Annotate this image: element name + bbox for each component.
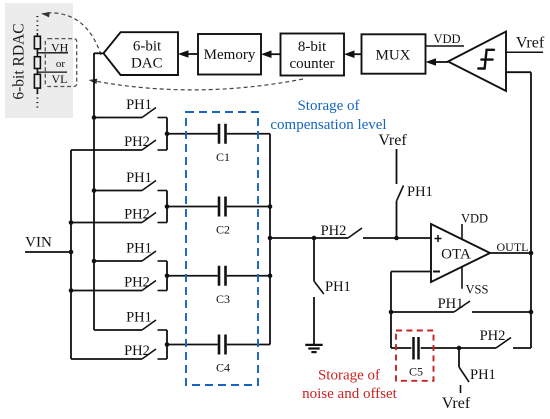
svg-text:VDD: VDD — [461, 212, 488, 226]
svg-text:Vref: Vref — [516, 35, 545, 52]
svg-text:OTA: OTA — [441, 247, 471, 263]
svg-text:VL: VL — [52, 72, 68, 86]
svg-text:C2: C2 — [216, 223, 230, 237]
svg-text:Storage of: Storage of — [297, 98, 359, 114]
svg-text:PH1: PH1 — [126, 310, 152, 326]
svg-text:PH2: PH2 — [124, 207, 150, 223]
svg-text:counter: counter — [290, 56, 335, 72]
svg-text:C1: C1 — [216, 150, 230, 164]
svg-text:Memory: Memory — [204, 47, 256, 63]
svg-text:VIN: VIN — [25, 235, 52, 251]
svg-text:PH1: PH1 — [325, 279, 351, 295]
svg-text:PH2: PH2 — [321, 223, 347, 239]
svg-text:or: or — [56, 58, 66, 70]
svg-text:Vref: Vref — [378, 132, 407, 149]
svg-text:MUX: MUX — [375, 48, 410, 64]
svg-text:VSS: VSS — [466, 283, 489, 297]
svg-text:DAC: DAC — [131, 56, 163, 72]
svg-text:PH1: PH1 — [126, 241, 152, 257]
svg-text:6-bit RDAC: 6-bit RDAC — [11, 23, 28, 99]
svg-text:PH2: PH2 — [124, 275, 150, 291]
svg-text:PH2: PH2 — [124, 343, 150, 359]
svg-text:compensation level: compensation level — [270, 117, 386, 133]
svg-text:PH1: PH1 — [126, 170, 152, 186]
svg-text:Vref: Vref — [442, 395, 471, 412]
svg-text:PH2: PH2 — [480, 328, 506, 344]
svg-text:PH1: PH1 — [126, 97, 152, 113]
svg-text:VDD: VDD — [433, 32, 460, 46]
svg-text:Storage of: Storage of — [318, 368, 380, 384]
svg-text:6-bit: 6-bit — [133, 39, 162, 55]
svg-text:C5: C5 — [409, 365, 423, 379]
svg-text:C4: C4 — [216, 361, 230, 375]
svg-text:PH2: PH2 — [124, 134, 150, 150]
svg-text:noise and offset: noise and offset — [302, 386, 398, 402]
svg-text:PH1: PH1 — [438, 296, 464, 312]
svg-text:PH1: PH1 — [470, 367, 496, 383]
svg-text:PH1: PH1 — [407, 184, 433, 200]
svg-text:VH: VH — [51, 41, 69, 55]
svg-text:C3: C3 — [216, 292, 230, 306]
svg-text:8-bit: 8-bit — [298, 39, 327, 55]
svg-text:OUTL: OUTL — [497, 240, 529, 254]
